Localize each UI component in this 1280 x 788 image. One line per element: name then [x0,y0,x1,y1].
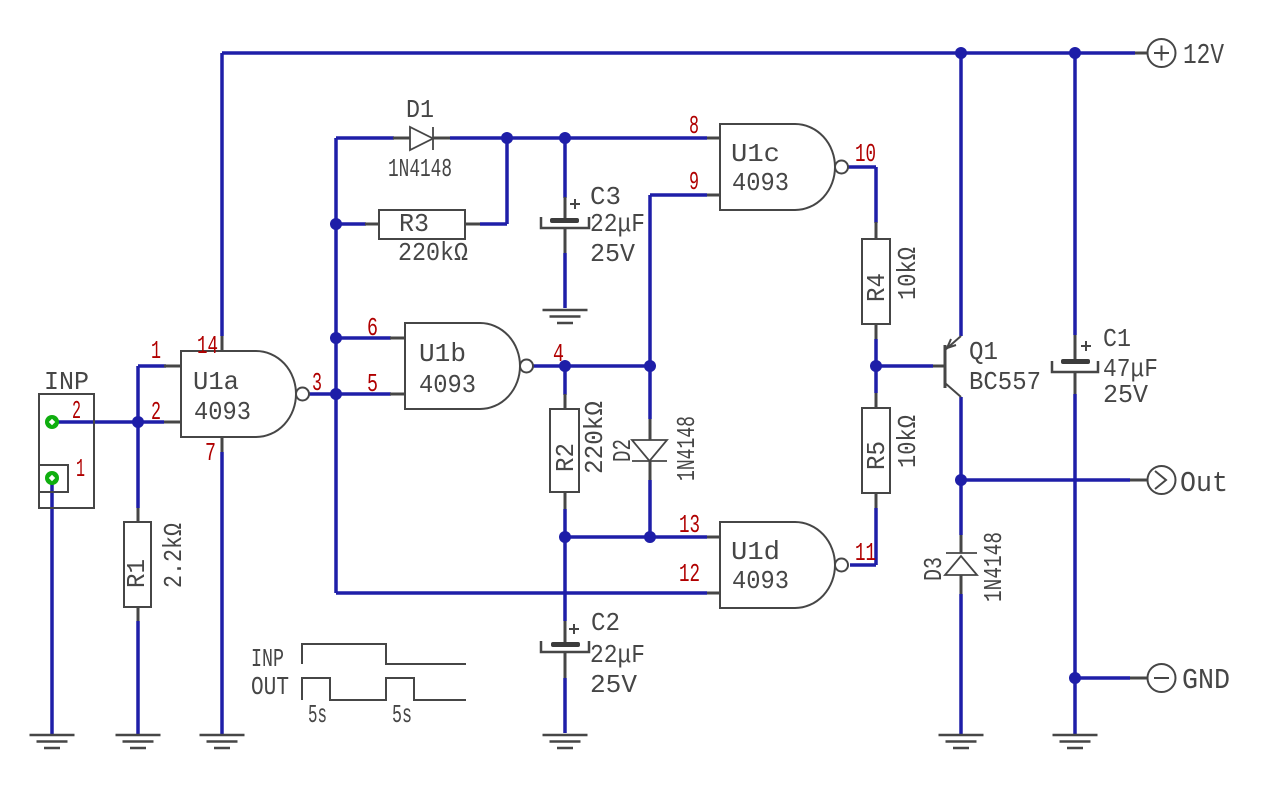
pin stub R2 top [564,394,567,409]
resistor R3 [379,210,465,239]
junction R4-R5-base [870,360,882,372]
wire C3 bottom to ground [563,253,567,308]
junction bus-R3 [330,218,342,230]
supply symbol 12V [1148,39,1176,67]
wire GND tap [1075,676,1130,680]
svg-text:1N4148: 1N4148 [979,532,1009,602]
resistor R2 [550,409,579,492]
resistor R1 [124,522,151,607]
svg-text:R5: R5 [862,441,892,470]
pin stub D1 right [433,137,450,140]
svg-text:R2: R2 [551,443,581,472]
wire R1 top [136,422,140,508]
wire R1 bottom to ground [136,621,140,735]
wire Q1 base run [876,364,933,368]
pin stub D2 top [649,419,652,440]
capacitor C1 [1052,341,1098,372]
pin stub 13 [707,536,720,539]
resistor R4 [862,239,890,324]
junction pin4-pin9 [644,360,656,372]
svg-text:4: 4 [553,339,564,369]
capacitor C2 [541,624,589,652]
capacitor C3 [541,199,589,228]
svg-text:10kΩ: 10kΩ [893,415,923,468]
junction D2-pin13 [644,531,656,543]
svg-text:5s: 5s [392,700,412,730]
svg-text:9: 9 [689,167,699,197]
svg-text:U1b: U1b [419,339,466,369]
pin stub 12V [1135,52,1148,55]
wire R5 bottom to pin11 [850,508,876,565]
pin stub C2 bottom [564,652,567,678]
svg-text:4093: 4093 [732,566,789,596]
svg-text:INP: INP [44,367,89,397]
svg-text:220kΩ: 220kΩ [580,401,610,474]
wire D1 anode [336,136,394,140]
svg-text:U1c: U1c [731,139,780,169]
pin stub 1 [164,365,181,368]
wire Q1 emitter riser [959,53,963,336]
NAND gate U1d [720,522,848,608]
wire C1 top drop [1073,53,1077,335]
svg-text:1N4148: 1N4148 [388,154,452,184]
wire VCC top rail [222,51,1135,55]
junction INP-pin2-R1 [132,416,144,428]
junction collector-Out [955,474,967,486]
pin stub C3 top [564,197,567,219]
pin stub 5 [390,393,405,396]
svg-text:7: 7 [205,438,216,468]
junction VCC-emitter [955,47,967,59]
pin stub 8 [707,137,720,140]
pad INP-2 [45,415,59,429]
svg-text:8: 8 [689,111,699,141]
svg-text:5s: 5s [308,700,327,730]
svg-text:Out: Out [1180,467,1228,500]
pin stub R2 bottom [564,492,567,509]
wire INP pad2 to pin2 [56,420,164,424]
pin stub D2 bottom [649,461,652,480]
pin stub R5 bottom [875,493,878,508]
wire Out tap [961,478,1130,482]
svg-text:R4: R4 [862,273,892,302]
pin stub 14 [221,336,224,351]
svg-text:6: 6 [367,313,378,343]
wire pin5 [336,392,391,396]
svg-text:R3: R3 [399,209,429,239]
wire pin12 bottom run [336,591,707,595]
svg-text:22μF: 22μF [590,640,645,670]
pin stub R1 bottom [137,607,140,621]
wire pin9 riser [648,195,652,419]
wire D3 bottom to ground [959,594,963,735]
svg-text:22μF: 22μF [590,209,645,239]
wire pin4 output run [533,364,650,368]
wire pin9 horizontal [650,193,707,197]
svg-text:C3: C3 [590,182,621,212]
svg-text:BC557: BC557 [969,367,1041,397]
svg-text:3: 3 [312,368,322,398]
wire pin6 [336,336,391,340]
pin stub D3 top [960,535,963,553]
ground D3 [939,735,984,748]
svg-text:D1: D1 [406,95,434,125]
junction bus-pin3-pin5 [330,388,342,400]
svg-text:2: 2 [72,396,81,426]
diode D3 [945,553,977,575]
pin stub Out [1130,479,1148,482]
NAND gate U1a [181,351,309,437]
svg-text:25V: 25V [590,670,637,700]
svg-text:4093: 4093 [419,370,476,400]
wire pin7 down to ground [220,452,224,735]
svg-text:U1d: U1d [731,537,780,567]
junction VCC-C1 [1069,47,1081,59]
wire pin13 [650,535,707,539]
pin stub 9 [707,194,720,197]
junction D1net-R3 [501,132,513,144]
pin stub R4 bottom [875,324,878,339]
svg-text:OUT: OUT [251,672,289,702]
svg-text:4093: 4093 [732,168,789,198]
junction bus-pin6 [330,332,342,344]
svg-text:D3: D3 [919,557,949,581]
svg-text:12: 12 [679,559,700,589]
connector symbol Out [1148,466,1176,494]
svg-text:220kΩ: 220kΩ [398,238,468,268]
pin stub R3 left [365,223,379,226]
svg-text:13: 13 [679,510,700,540]
svg-text:10kΩ: 10kΩ [893,247,923,300]
wire R4 bottom [874,339,878,393]
wire R2 to D2 node [565,535,650,539]
svg-text:D2: D2 [608,439,638,462]
NAND gate U1c [720,124,848,210]
wire U1c out to R4 [848,167,876,223]
svg-text:C1: C1 [1103,324,1131,354]
wire Q1 collector down [959,397,963,535]
svg-text:1: 1 [151,336,161,366]
pin stub R1 top [137,508,140,522]
diode D1 [410,127,433,150]
pin stub GND [1130,677,1148,680]
wire R2 bottom [563,509,567,537]
wire C1 bottom to ground [1073,394,1077,735]
svg-text:Q1: Q1 [969,337,998,367]
wire C2 top [563,537,567,621]
wire INP pad1 down to ground [50,483,54,735]
pin stub Q1 base [933,365,944,368]
svg-text:INP: INP [251,644,284,674]
svg-text:1N4148: 1N4148 [672,416,702,481]
pin stub C1 bottom [1074,372,1077,394]
wire R3 right up to D1 net [480,138,507,224]
svg-text:5: 5 [367,369,378,399]
svg-text:GND: GND [1182,664,1230,697]
svg-text:R1: R1 [122,559,152,588]
svg-text:14: 14 [197,331,218,361]
wire C3 top drop [563,138,567,198]
svg-text:10: 10 [855,139,876,169]
svg-text:U1a: U1a [193,367,239,397]
svg-text:4093: 4093 [194,397,251,427]
pin stub 2 [164,421,181,424]
pad INP-1 [45,471,59,485]
connector INP frame [39,394,94,508]
svg-text:2.2kΩ: 2.2kΩ [159,523,189,588]
ground pin7 [200,735,245,748]
wire R2 top [563,366,567,395]
svg-text:1: 1 [76,454,85,484]
wire pin3 output [309,392,336,396]
wire D2 bottom [648,480,652,537]
resistor R5 [862,408,890,493]
svg-text:2: 2 [151,397,161,427]
timing waveform INP [302,644,466,664]
pin stub C1 top [1074,335,1077,360]
junction R2-C2 [559,531,571,543]
wire C2 bottom to ground [563,678,567,733]
pin stub D1 left [393,137,410,140]
ground R1 [116,735,161,748]
pin stub D3 bottom [960,575,963,594]
svg-text:C2: C2 [591,608,620,638]
pin stub C3 bottom [564,228,567,253]
svg-text:12V: 12V [1183,39,1224,72]
svg-text:25V: 25V [590,239,635,269]
transistor Q1 [945,336,961,397]
pin stub R3 right [465,223,480,226]
ground INP pad1 [30,735,75,748]
pin stub 6 [390,337,405,340]
pin stub 7 [221,437,224,452]
ground C2 [543,735,588,748]
wire pin1 branch [138,366,166,422]
junction D1net-C3 [559,132,571,144]
wire mid vertical bus [334,138,338,593]
NAND gate U1b [405,323,533,409]
pin stub R5 top [875,393,878,408]
junction pin4-R2 [559,360,571,372]
timing waveform OUT [302,678,466,700]
svg-text:11: 11 [855,538,876,568]
ground C3 [543,310,588,323]
wire R3 left [336,222,366,226]
junction C1-GND [1069,672,1081,684]
wire pin14 riser [220,53,224,336]
pin stub R4 top [875,222,878,239]
pin stub C2 top [564,621,567,643]
wire D1 cathode to pin8 [450,136,707,140]
pin stub 12 [707,592,720,595]
svg-text:25V: 25V [1103,380,1148,410]
ground C1 [1053,735,1098,748]
diode D2 [632,440,667,461]
supply symbol GND [1148,664,1176,692]
